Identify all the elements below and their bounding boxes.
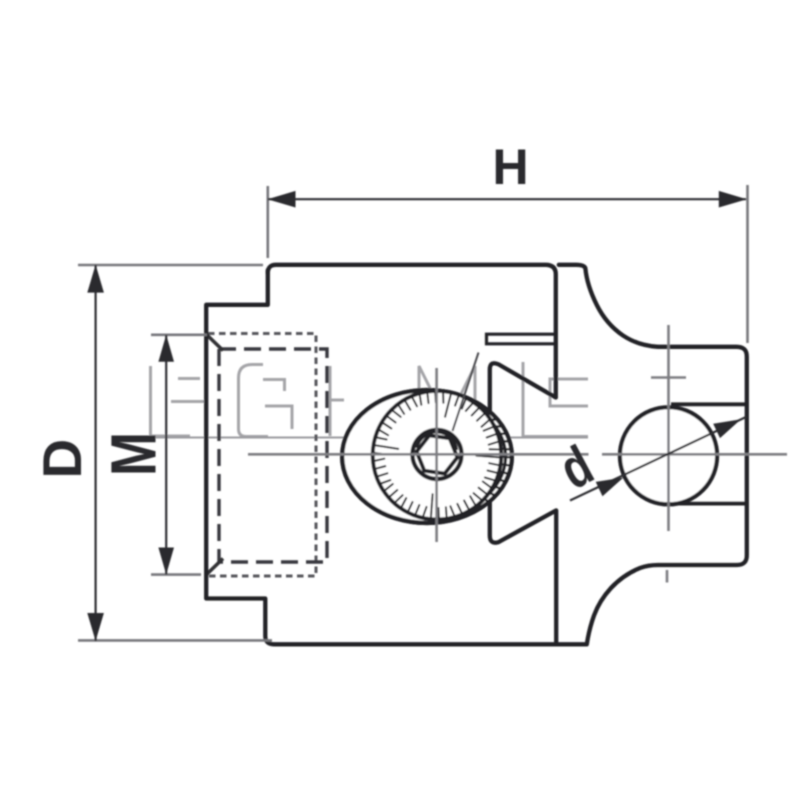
svg-text:H: H xyxy=(492,139,528,195)
svg-text:M: M xyxy=(99,432,170,476)
svg-text:D: D xyxy=(31,439,93,479)
